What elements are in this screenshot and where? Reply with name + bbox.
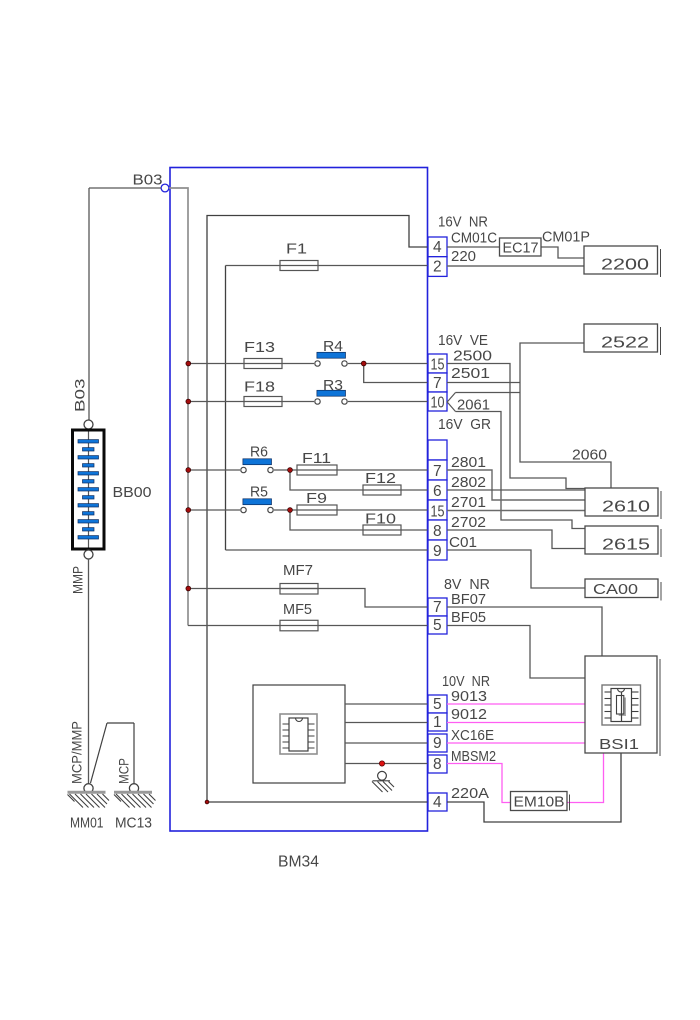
wire module to pin 5 (9013) (345, 703, 428, 705)
svg-text:R3: R3 (323, 378, 343, 394)
wire C01 (pin9 to CA00) (447, 550, 585, 588)
wire through battery (88, 429, 90, 550)
svg-text:10: 10 (431, 395, 445, 412)
fuse F12 (363, 485, 401, 495)
svg-text:B03: B03 (72, 378, 88, 412)
svg-text:2801: 2801 (451, 455, 486, 471)
svg-text:B03: B03 (133, 172, 163, 189)
svg-text:2522: 2522 (601, 335, 649, 352)
svg-text:1: 1 (433, 714, 442, 731)
wire C01 row (226, 549, 429, 551)
svg-text:6: 6 (433, 483, 442, 500)
wire BF07 (pin7 to BSI1 top) (447, 607, 602, 656)
box 2522 (584, 324, 658, 352)
svg-text:EM10B: EM10B (514, 795, 565, 811)
svg-text:4: 4 (433, 794, 442, 811)
svg-text:F10: F10 (365, 512, 396, 528)
svg-text:2501: 2501 (451, 366, 490, 382)
svg-text:BM34: BM34 (278, 854, 319, 871)
svg-text:5: 5 (433, 617, 442, 634)
pin 10 (2061) (428, 392, 447, 411)
pin 2 (220) (428, 257, 447, 277)
box 2610 (585, 488, 658, 516)
electronic module outer box (253, 685, 345, 783)
box 2200 (584, 246, 658, 274)
svg-text:7: 7 (433, 599, 442, 616)
internal chassis ground (372, 771, 394, 792)
wire MBSM2 (pink, pin8 to EM10B) (447, 764, 511, 803)
box BSI1 (585, 656, 657, 753)
pin 9 (C01) (428, 540, 447, 560)
svg-text:8V NR: 8V NR (444, 577, 490, 593)
svg-text:8: 8 (433, 523, 442, 540)
wire MCP down to MC13 (133, 723, 135, 784)
wire 2522 riser (520, 343, 611, 488)
svg-text:EC17: EC17 (503, 241, 539, 257)
svg-text:2615: 2615 (602, 537, 650, 554)
svg-text:BSI1: BSI1 (599, 736, 639, 753)
svg-text:MCP/MMP: MCP/MMP (69, 721, 85, 784)
svg-text:MMP: MMP (70, 566, 86, 594)
svg-text:R6: R6 (250, 445, 268, 461)
wire module to pin 8 (MBSM2) (345, 763, 428, 765)
battery bottom terminal (84, 550, 93, 559)
wire BF05 (pin5 to BSI1 left) (447, 626, 585, 679)
ground MC13 (114, 784, 156, 808)
wire R5 to F9 to pin 15 (274, 509, 428, 511)
svg-text:8: 8 (433, 756, 442, 773)
wire 9012 (pink, pin1 to BSI1) (447, 722, 585, 724)
box 2615 (585, 526, 658, 554)
wire 2801 (pin7 to 2610) (447, 470, 585, 500)
wire EC17 to 2200 (541, 247, 584, 258)
box EM10B (511, 792, 568, 811)
node B03 terminal circle (161, 184, 169, 192)
pin 5 (BF05) (428, 616, 447, 634)
svg-text:16V GR: 16V GR (438, 417, 491, 433)
wire B03 down to battery top (88, 188, 90, 420)
svg-text:F12: F12 (365, 471, 396, 487)
wire branch to pin 7 (2501) (364, 364, 428, 383)
fuse MF5 (280, 620, 318, 631)
battery BB00 cell bars (78, 440, 99, 539)
fuse F11 (297, 465, 337, 475)
wire F18/R3 row (188, 401, 314, 403)
relay R5 (243, 499, 272, 505)
svg-text:9013: 9013 (451, 689, 487, 705)
svg-text:9: 9 (433, 735, 442, 752)
wire EM10B to BSI1 (pink) (567, 753, 604, 803)
svg-text:16V VE: 16V VE (438, 333, 488, 349)
relay R3 (317, 390, 346, 396)
svg-text:MF5: MF5 (283, 602, 312, 618)
svg-text:2802: 2802 (451, 475, 486, 491)
svg-text:F11: F11 (302, 451, 331, 467)
svg-text:220: 220 (451, 249, 476, 265)
pin 15 (2500) (428, 354, 447, 373)
svg-text:BB00: BB00 (113, 484, 152, 501)
svg-text:10V NR: 10V NR (442, 674, 490, 690)
relay R4 (317, 352, 346, 358)
wire R5 row from bus (188, 509, 240, 511)
svg-text:15: 15 (431, 504, 445, 521)
wire MF5 row (188, 625, 428, 627)
svg-text:F13: F13 (244, 340, 275, 356)
svg-text:R5: R5 (250, 485, 268, 501)
wire MCP link (horizontal) (107, 722, 134, 724)
box CA00 (585, 579, 658, 598)
chip U1 body (289, 718, 308, 751)
fuse MF7 (280, 584, 318, 595)
battery BB00 box (73, 430, 105, 549)
pin 4 (CM01C) (428, 237, 447, 257)
pin 5 (9013) (428, 695, 447, 713)
svg-text:16V NR: 16V NR (438, 215, 488, 231)
svg-text:4: 4 (433, 239, 442, 256)
svg-text:220A: 220A (451, 786, 489, 802)
fuse F9 (297, 505, 337, 515)
wire R6 to F11 to pin 7 (274, 469, 428, 471)
wire F1 feed vertical (225, 266, 227, 551)
wire 2061 lower branch to 2615 (456, 412, 586, 529)
pin 4 (220A) (428, 793, 447, 811)
wire 2701 (pin15 to 2610) (447, 510, 585, 512)
wire F13/R4 row (188, 363, 314, 365)
wire internal frame (pin4 top to pin4 bottom) (207, 216, 428, 803)
junction dot frame corner (205, 800, 209, 804)
wire R6 row from bus (188, 469, 240, 471)
svg-text:15: 15 (431, 357, 445, 374)
wire B03 node into supply bus (169, 188, 188, 626)
wire pin2 to 2200 (220) (447, 265, 584, 267)
wire battery to ground MM01 (88, 559, 90, 784)
svg-text:5: 5 (433, 696, 442, 713)
relay R6 (243, 459, 272, 465)
wire pin4 to EC17 (447, 246, 500, 248)
connector EC17 (500, 238, 542, 256)
svg-text:MF7: MF7 (283, 563, 313, 579)
wire branch to F12 / pin 6 (290, 470, 428, 490)
fuse F1 (280, 261, 318, 271)
svg-text:2701: 2701 (451, 495, 486, 511)
wire 2802 (pin6 to 2610) (447, 489, 585, 491)
svg-text:BF07: BF07 (451, 592, 486, 608)
junction dot after R5 (288, 508, 293, 513)
wire R4 to pin 15 (348, 363, 428, 365)
pin 8 (2702) (428, 520, 447, 540)
pin 8 (MBSM2) (428, 755, 447, 773)
svg-text:F1: F1 (286, 242, 307, 258)
svg-text:2060: 2060 (572, 448, 607, 464)
wire 2500 (pin15 to 2610 top-left) (447, 364, 585, 489)
wire MCP diagonal to MM01 (91, 723, 108, 783)
chip socket (gray) (280, 714, 317, 754)
svg-text:MCP: MCP (116, 758, 132, 784)
wire 2501 (pin7 to 2522) (447, 382, 520, 384)
svg-text:7: 7 (433, 463, 442, 480)
pin 9 (XC16E) (428, 734, 447, 752)
pin 1 (9012) (428, 713, 447, 731)
wire 2702 (pin8 to 2615) (447, 530, 585, 549)
pin 15 (2701) (428, 500, 447, 520)
svg-text:2610: 2610 (602, 499, 650, 516)
wire 2061 arrow (pin10) (447, 393, 455, 412)
svg-text:C01: C01 (449, 535, 477, 551)
svg-text:2500: 2500 (453, 349, 492, 365)
chip U1 pins (283, 724, 315, 748)
wire 2061 upper branch (456, 392, 521, 394)
pin 7 (2501) (428, 373, 447, 392)
battery top terminal (84, 420, 93, 429)
junction dot after R6 (288, 468, 293, 473)
svg-text:BF05: BF05 (451, 610, 486, 626)
svg-text:7: 7 (433, 375, 442, 392)
svg-text:9: 9 (433, 543, 442, 560)
svg-text:CA00: CA00 (593, 582, 638, 598)
pin 7 (BF07) (428, 598, 447, 616)
SECTION: pin boxes (428, 237, 447, 811)
wire 9013 (pink, pin5 to BSI1) (447, 703, 585, 705)
ground MM01 (68, 784, 110, 808)
wire XC16E (pink, pin9 to BSI1) (447, 742, 585, 744)
pin 6 (2802) (428, 480, 447, 500)
svg-text:CM01C: CM01C (451, 231, 497, 247)
pin unnumbered (428, 440, 447, 460)
fuse F18 (244, 397, 282, 407)
svg-text:MC13: MC13 (115, 816, 152, 832)
svg-text:MM01: MM01 (70, 816, 104, 832)
svg-text:2200: 2200 (601, 257, 649, 274)
wire branch to F10 / pin 8 (290, 510, 428, 530)
svg-text:2702: 2702 (451, 515, 486, 531)
fuse F13 (244, 359, 282, 369)
wire F1 row to pin 2 (226, 265, 429, 267)
wire module to pin 1 (9012) (345, 722, 428, 724)
fuse F10 (363, 525, 401, 535)
junction dots on supply bus (186, 361, 366, 804)
BSI1 chip icon (602, 685, 641, 725)
module BM34 outer box (170, 168, 428, 832)
svg-text:2: 2 (433, 259, 442, 276)
pin 7 (2801) (428, 460, 447, 480)
wire MF7 row (188, 589, 428, 608)
wire B03 to battery (horizontal) (89, 187, 161, 189)
wire 220A (pin4 to BSI1 bottom) (447, 753, 621, 822)
svg-text:F9: F9 (306, 491, 327, 507)
svg-text:MBSM2: MBSM2 (451, 749, 496, 765)
wire R3 to pin 10 (348, 401, 428, 403)
junction dot MBSM2 ground (379, 761, 384, 766)
svg-text:9012: 9012 (451, 707, 487, 723)
svg-text:R4: R4 (323, 339, 343, 355)
svg-text:F18: F18 (244, 380, 275, 396)
junction dot after R4 (361, 361, 366, 366)
svg-text:XC16E: XC16E (451, 728, 494, 744)
wire module to pin 9 (XC16E) (345, 742, 428, 744)
svg-text:CM01P: CM01P (542, 230, 590, 246)
